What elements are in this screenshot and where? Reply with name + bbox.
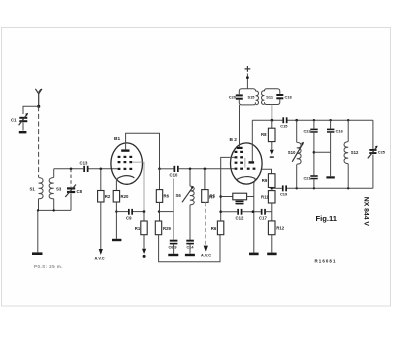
svg-text:Fig.11: Fig.11 xyxy=(316,214,338,223)
capacitor C13 xyxy=(80,161,89,173)
svg-text:P0.S: 25 m.: P0.S: 25 m. xyxy=(34,264,63,269)
wire to C10 xyxy=(160,168,174,170)
output bottom rail with capacitor C19 xyxy=(272,185,373,196)
svg-text:R9: R9 xyxy=(262,178,268,183)
svg-text:C12: C12 xyxy=(236,216,244,221)
inductor S10 (variable) xyxy=(288,120,304,188)
resistor R11 xyxy=(261,191,275,221)
B2 top electrode bar xyxy=(237,147,243,149)
node xyxy=(296,187,298,189)
node xyxy=(100,168,103,171)
faint stub secondary to rail xyxy=(271,105,273,120)
svg-text:A.V.C: A.V.C xyxy=(95,255,105,260)
capacitor C1 (trimmer) xyxy=(11,113,28,125)
resistor R6 xyxy=(156,169,169,221)
svg-text:S1: S1 xyxy=(30,186,36,191)
resistor R12 xyxy=(267,221,285,255)
node xyxy=(204,168,207,171)
svg-text:C9: C9 xyxy=(126,216,132,221)
resistor R1 xyxy=(135,212,147,235)
node xyxy=(347,187,349,189)
capacitor C6,9 with ground xyxy=(168,240,178,257)
B2 lead up to IF transformer xyxy=(239,105,241,147)
node xyxy=(329,119,331,121)
B1 cathode arc xyxy=(117,176,134,179)
B2 internal connector xyxy=(244,158,246,168)
B2 cathode lead to ground xyxy=(254,179,255,253)
tube B2 xyxy=(230,137,263,184)
inductor S1 xyxy=(30,178,44,211)
chassis bar under C16 branch xyxy=(326,176,334,178)
wire C10 to B2 grid xyxy=(179,168,235,170)
node xyxy=(115,210,117,212)
wire bottom rail of input coils xyxy=(38,209,71,211)
B1 anode bar xyxy=(121,149,129,151)
wire antenna to S1 (dashed) xyxy=(38,106,40,177)
svg-text:C17: C17 xyxy=(259,216,267,221)
wire antenna to C1 xyxy=(23,106,39,114)
R1 arrow to chassis xyxy=(142,235,146,258)
node xyxy=(347,119,349,121)
inductor S6 (variable) xyxy=(176,169,195,240)
svg-text:S12: S12 xyxy=(351,150,359,155)
resistor R8 xyxy=(261,120,275,158)
svg-text:C19: C19 xyxy=(280,192,288,197)
B1 grid dots xyxy=(118,156,133,170)
resistor R9 xyxy=(262,174,275,188)
node xyxy=(295,119,298,122)
wire C13 to B1 grid xyxy=(89,168,118,170)
output top rail with capacitor C15 xyxy=(252,117,373,128)
svg-text:R20: R20 xyxy=(121,194,129,199)
resistor R7 (horizontal) with cap plates xyxy=(209,193,254,204)
wire y211 caps C12 C17 xyxy=(221,209,272,221)
svg-text:S10: S10 xyxy=(288,150,296,155)
B1 screen lead to R1 column xyxy=(133,162,144,212)
svg-text:R1: R1 xyxy=(135,226,141,231)
svg-text:S11: S11 xyxy=(266,95,274,100)
svg-text:B 2: B 2 xyxy=(230,137,238,143)
capacitor C8 (trimmer, tuning gang) xyxy=(65,169,82,211)
node xyxy=(53,209,55,211)
capacitor C25 (trimmer) xyxy=(368,120,386,188)
node xyxy=(252,210,255,213)
svg-text:R29: R29 xyxy=(163,226,171,231)
node anode junction xyxy=(158,168,161,171)
svg-text:R7: R7 xyxy=(209,194,215,199)
antenna xyxy=(35,89,42,107)
IF transformer secondary loop: coil S11 and capacitor C18 xyxy=(262,89,293,105)
svg-text:C18: C18 xyxy=(285,95,293,100)
tube B1 xyxy=(111,136,143,184)
capacitor C14 with ground xyxy=(185,240,195,257)
svg-text:R6: R6 xyxy=(211,226,217,231)
B1 cathode lead xyxy=(116,178,117,190)
svg-text:R6: R6 xyxy=(164,193,170,198)
AVC arrow left xyxy=(95,249,105,260)
wire R20 to ground xyxy=(115,202,117,239)
wire R5 to AVC xyxy=(205,202,207,245)
resistor R5 xyxy=(202,169,216,203)
svg-text:R2: R2 xyxy=(105,194,111,199)
wire down to C6,9 xyxy=(173,179,175,240)
node xyxy=(313,119,315,121)
node xyxy=(189,168,192,171)
B2 anode bar xyxy=(249,161,255,163)
ground under B2 cathode xyxy=(249,253,259,256)
B2 electrode dots xyxy=(235,151,256,170)
capacitor C22 top xyxy=(304,120,318,175)
svg-text:R11: R11 xyxy=(261,195,269,200)
svg-text:S6: S6 xyxy=(176,193,182,198)
svg-text:C8: C8 xyxy=(77,189,83,194)
wire middle link xyxy=(314,151,331,153)
svg-text:S3: S3 xyxy=(56,186,62,191)
svg-text:C13: C13 xyxy=(80,161,88,166)
capacitor C16 xyxy=(327,120,344,176)
capacitor C21 bottom xyxy=(304,175,318,188)
B2 anode lead up to output rail xyxy=(251,120,253,161)
capacitor C10 xyxy=(170,166,179,178)
wire R29 to bottom rail xyxy=(159,235,220,262)
node xyxy=(70,168,73,171)
ground under R20 xyxy=(112,239,121,241)
inductor S3 xyxy=(49,169,62,211)
node xyxy=(219,210,222,213)
svg-text:C16: C16 xyxy=(336,128,344,133)
plus supply xyxy=(245,66,251,89)
resistor R6b lower left of B2 xyxy=(211,221,224,235)
node antenna junction xyxy=(37,105,40,108)
node xyxy=(158,210,160,212)
svg-text:C25: C25 xyxy=(378,150,386,155)
node xyxy=(271,119,274,122)
resistor R29 xyxy=(155,221,171,235)
ground under C1 xyxy=(19,123,27,134)
node xyxy=(271,187,274,190)
B2 screen line to R9 xyxy=(262,169,272,173)
AVC arrow right xyxy=(201,246,211,258)
wire R6 junction to C6,9 xyxy=(159,211,174,213)
svg-text:NX 844 V: NX 844 V xyxy=(363,197,370,227)
node xyxy=(143,210,146,213)
svg-text:B1: B1 xyxy=(114,136,120,142)
svg-text:C1: C1 xyxy=(11,118,17,123)
B1 anode lead and top wire xyxy=(126,133,160,169)
B2 left line to R7 column xyxy=(221,157,235,221)
inductor S12 xyxy=(344,120,359,188)
svg-text:R12: R12 xyxy=(276,226,284,231)
svg-text:C22: C22 xyxy=(304,128,312,133)
svg-text:C6,9: C6,9 xyxy=(169,246,177,250)
svg-text:C10: C10 xyxy=(170,173,178,178)
node middle link xyxy=(313,151,316,154)
B2 cathode arc xyxy=(237,177,256,180)
wire grid line from S3 to C13 xyxy=(54,168,84,170)
wire y211 with capacitor C9 xyxy=(116,209,144,221)
resistor R20 xyxy=(113,191,129,203)
IF transformer primary loop: capacitor C20 and coil S15 xyxy=(229,89,259,105)
node xyxy=(219,195,222,198)
svg-text:A.V.C: A.V.C xyxy=(201,253,211,258)
svg-text:S15: S15 xyxy=(248,95,256,100)
svg-text:C21: C21 xyxy=(304,175,312,180)
svg-text:R8: R8 xyxy=(261,132,267,137)
ground below input coils xyxy=(32,210,43,255)
node xyxy=(313,187,315,189)
svg-text:R16081: R16081 xyxy=(315,259,337,264)
resistor R2 xyxy=(98,169,111,202)
wire R2 to AVC xyxy=(100,202,102,249)
svg-text:C20: C20 xyxy=(229,95,236,100)
node xyxy=(37,209,39,211)
svg-text:C15: C15 xyxy=(280,124,288,129)
